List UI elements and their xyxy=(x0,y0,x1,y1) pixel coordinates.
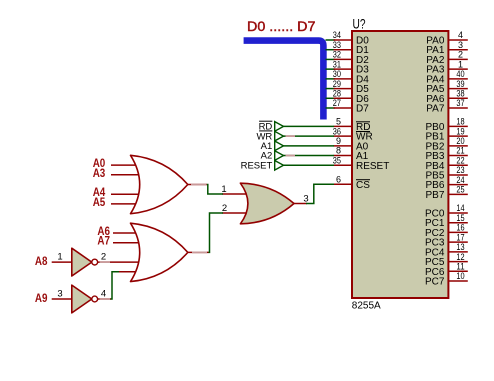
label A4 xyxy=(93,185,106,199)
pin number 1 (A8 input) xyxy=(57,252,62,263)
pin D1 (33) left xyxy=(333,40,369,56)
label A3 xyxy=(93,166,106,180)
svg-text:PA7: PA7 xyxy=(426,104,445,115)
input terminal WR xyxy=(256,131,283,142)
svg-text:13: 13 xyxy=(456,242,464,252)
svg-text:23: 23 xyxy=(456,165,464,175)
wire A9 inverter output up to or-gate U2 xyxy=(98,272,119,299)
svg-text:25: 25 xyxy=(456,185,464,195)
wire node 3 : U5 output to CS pin xyxy=(294,184,334,203)
wire node 2 : U2 output to U5 input xyxy=(188,213,224,252)
faint net mark on A1 wire xyxy=(286,155,296,157)
pin D5 (29) left xyxy=(333,79,369,95)
svg-text:29: 29 xyxy=(333,79,341,89)
wire bus to pin D3 xyxy=(326,68,336,70)
pin CS (6) left xyxy=(334,175,371,191)
svg-text:A9: A9 xyxy=(35,291,48,305)
pin D2 (32) left xyxy=(333,50,369,66)
pin PB2 (20) right xyxy=(425,136,467,152)
svg-text:31: 31 xyxy=(333,59,341,69)
faint net mark on WR wire xyxy=(286,135,296,137)
svg-text:33: 33 xyxy=(333,40,341,50)
svg-text:6: 6 xyxy=(336,175,341,185)
pin PC6 (11) right xyxy=(425,261,468,277)
pin D7 (27) left xyxy=(333,98,369,114)
wire bus to pin D7 xyxy=(326,107,336,109)
bus label D0 ...... D7 xyxy=(247,18,316,34)
pin PC5 (12) right xyxy=(425,252,468,268)
svg-text:CS: CS xyxy=(356,180,370,191)
pin PC4 (13) right xyxy=(425,242,468,258)
pin PC2 (16) right xyxy=(425,223,468,239)
svg-text:8: 8 xyxy=(336,146,341,156)
pin number 3 (A9 input) xyxy=(57,289,62,300)
svg-text:11: 11 xyxy=(456,261,464,271)
input terminal RESET xyxy=(241,160,284,171)
label A5 xyxy=(93,195,106,209)
wire bus to pin D0 xyxy=(326,39,336,41)
svg-text:22: 22 xyxy=(456,155,464,165)
label A7 xyxy=(97,234,110,248)
or-gate U5 (2-input, output to CS) xyxy=(222,183,294,224)
not-gate U3 (input A8) xyxy=(52,248,98,276)
or-gate U1 (4-input: A0 A3 A4 A5) xyxy=(111,155,188,213)
pin PA1 (3) right xyxy=(426,40,468,56)
wire bus to pin D6 xyxy=(326,97,336,99)
pin RESET (35) left xyxy=(333,155,390,171)
svg-text:18: 18 xyxy=(456,117,464,127)
input terminal A1 xyxy=(261,141,284,152)
faint net mark on node 2 xyxy=(192,251,207,253)
svg-text:1: 1 xyxy=(57,252,62,263)
svg-text:15: 15 xyxy=(456,213,464,223)
svg-text:D0 ...... D7: D0 ...... D7 xyxy=(247,18,316,34)
node label 1 xyxy=(221,184,226,195)
svg-text:35: 35 xyxy=(333,155,341,165)
svg-text:20: 20 xyxy=(456,136,464,146)
wire RESET terminal to chip xyxy=(284,164,335,166)
pin PA7 (37) right xyxy=(426,98,468,114)
wire node 1 : U1 output to U5 input xyxy=(188,185,224,195)
svg-text:A5: A5 xyxy=(93,195,106,209)
svg-text:A3: A3 xyxy=(93,166,106,180)
svg-text:28: 28 xyxy=(333,88,341,98)
pin PC0 (14) right xyxy=(425,203,468,219)
svg-text:24: 24 xyxy=(456,175,464,185)
svg-text:16: 16 xyxy=(456,223,464,233)
or-gate U2 (4-input: A6 A7 /A8 /A9) xyxy=(113,223,188,281)
svg-text:39: 39 xyxy=(456,79,464,89)
pin D0 (34) left xyxy=(333,30,369,46)
svg-text:36: 36 xyxy=(333,126,341,136)
data bus D0..D7 xyxy=(244,41,324,120)
pin D6 (28) left xyxy=(333,88,369,104)
svg-text:9: 9 xyxy=(336,136,341,146)
svg-text:4: 4 xyxy=(458,30,463,40)
pin PA2 (2) right xyxy=(426,50,468,66)
pin A1 (8) left xyxy=(334,146,369,162)
svg-text:4: 4 xyxy=(101,289,106,300)
pin PA6 (38) right xyxy=(426,88,468,104)
wire bus to pin D2 xyxy=(326,58,336,60)
svg-text:2: 2 xyxy=(458,50,463,60)
node label 2 xyxy=(222,203,227,214)
svg-text:40: 40 xyxy=(456,69,464,79)
svg-text:5: 5 xyxy=(336,117,341,127)
svg-text:37: 37 xyxy=(456,98,464,108)
svg-text:RESET: RESET xyxy=(356,161,389,172)
pin number 4 (A9 inverter output) xyxy=(101,289,106,300)
wire WR terminal to chip xyxy=(284,135,335,137)
pin A0 (9) left xyxy=(334,136,369,152)
svg-text:RESET: RESET xyxy=(241,160,273,171)
pin PA3 (1) right xyxy=(426,59,468,75)
svg-text:10: 10 xyxy=(456,271,464,281)
pin PC7 (10) right xyxy=(425,271,468,287)
svg-text:3: 3 xyxy=(303,193,308,204)
svg-text:30: 30 xyxy=(333,69,341,79)
svg-text:2: 2 xyxy=(101,252,106,263)
pin PB3 (21) right xyxy=(425,146,467,162)
pin PB0 (18) right xyxy=(425,117,467,133)
pin PC1 (15) right xyxy=(425,213,468,229)
svg-text:27: 27 xyxy=(333,98,341,108)
pin PC3 (17) right xyxy=(425,232,468,248)
pin PB4 (22) right xyxy=(425,155,467,171)
node label 3 xyxy=(303,193,308,204)
svg-text:U?: U? xyxy=(353,15,366,31)
input terminal A2 xyxy=(261,151,284,162)
svg-text:D7: D7 xyxy=(356,104,369,115)
svg-text:8255A: 8255A xyxy=(352,301,381,312)
pin PB5 (23) right xyxy=(425,165,467,181)
pin number 2 (A8 inverter output) xyxy=(101,252,106,263)
svg-text:19: 19 xyxy=(456,126,464,136)
svg-text:A7: A7 xyxy=(97,234,110,248)
pin D3 (31) left xyxy=(333,59,369,75)
svg-text:A8: A8 xyxy=(35,254,48,268)
svg-text:1: 1 xyxy=(221,184,226,195)
pin RD (5) left xyxy=(334,117,371,133)
svg-text:3: 3 xyxy=(57,289,62,300)
pin WR (36) left xyxy=(333,126,373,142)
pin PB6 (24) right xyxy=(425,175,467,191)
svg-text:21: 21 xyxy=(456,146,464,156)
input terminal RD xyxy=(259,121,284,132)
label A0 xyxy=(93,156,106,170)
reference label U? xyxy=(353,15,366,31)
svg-text:1: 1 xyxy=(458,59,463,69)
not-gate U4 (input A9) xyxy=(52,285,98,313)
wire bus to pin D5 xyxy=(326,88,336,90)
wire bus to pin D4 xyxy=(326,78,336,80)
svg-text:12: 12 xyxy=(456,252,464,262)
wire A8 inverter output to or-gate U2 xyxy=(98,261,139,263)
IC U? 8255A body xyxy=(352,31,448,298)
wire A1 terminal to chip xyxy=(284,145,335,147)
svg-text:PB7: PB7 xyxy=(425,190,444,201)
value label 8255A xyxy=(352,301,381,312)
label A6 xyxy=(97,224,110,238)
pin D4 (30) left xyxy=(333,69,369,85)
svg-text:32: 32 xyxy=(333,50,341,60)
svg-text:3: 3 xyxy=(458,40,463,50)
wire A2 terminal to chip xyxy=(284,155,335,157)
svg-text:2: 2 xyxy=(222,203,227,214)
faint net mark on A8 output xyxy=(100,261,110,263)
svg-text:34: 34 xyxy=(333,30,341,40)
pin PA0 (4) right xyxy=(426,30,468,46)
faint net mark on A9 output xyxy=(100,298,110,300)
svg-text:38: 38 xyxy=(456,88,464,98)
svg-text:14: 14 xyxy=(456,203,464,213)
label A8 xyxy=(35,254,48,268)
pin PA4 (40) right xyxy=(426,69,468,85)
svg-text:PC7: PC7 xyxy=(425,277,445,288)
label A9 xyxy=(35,291,48,305)
faint net mark on node 1 xyxy=(191,184,207,186)
pin PB7 (25) right xyxy=(425,185,467,201)
wire bus to pin D1 xyxy=(326,49,336,51)
wire RD terminal to chip xyxy=(284,125,335,127)
pin PB1 (19) right xyxy=(425,126,467,142)
pin PA5 (39) right xyxy=(426,79,468,95)
svg-text:17: 17 xyxy=(456,232,464,242)
